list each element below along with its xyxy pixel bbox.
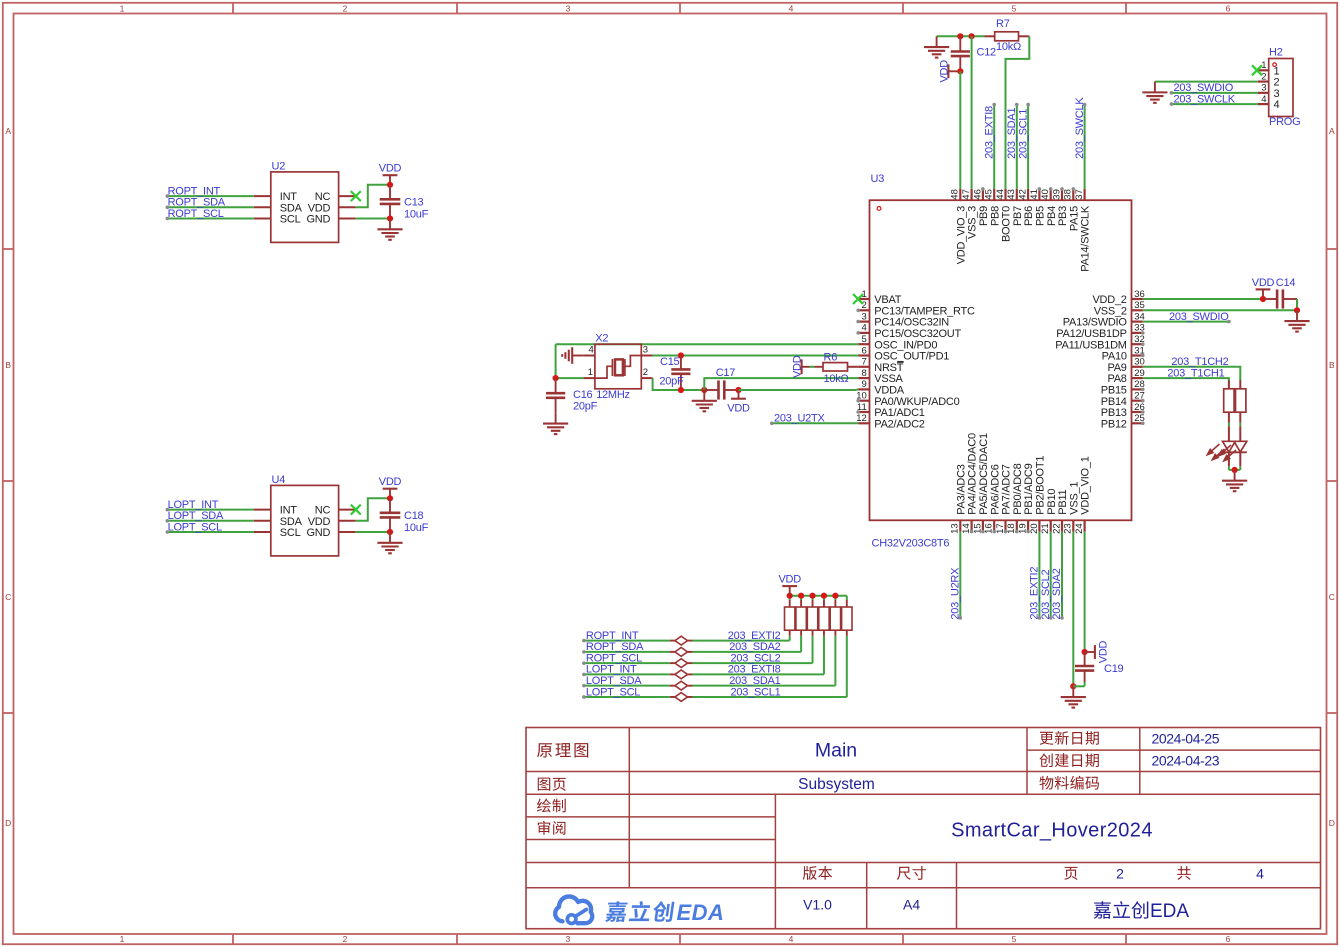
wire X2 pin2 to ground rail xyxy=(653,378,705,390)
svg-text:SmartCar_Hover2024: SmartCar_Hover2024 xyxy=(951,819,1153,841)
svg-text:PB12: PB12 xyxy=(1101,418,1127,430)
svg-text:PA7/ADC7: PA7/ADC7 xyxy=(1001,464,1013,515)
svg-text:NC: NC xyxy=(315,505,331,517)
U3 pin 4 PC15/OSC32OUT xyxy=(858,332,869,334)
svg-text:PB5: PB5 xyxy=(1035,206,1047,226)
capacitor C15 20pF xyxy=(680,356,682,370)
svg-text:203_EXTI8: 203_EXTI8 xyxy=(983,106,995,159)
svg-text:LOPT_SCL: LOPT_SCL xyxy=(586,686,640,698)
U3 pin 12 PA2/ADC2 xyxy=(858,422,869,424)
U3 pin 2 PC13/TAMPER_RTC xyxy=(858,309,869,311)
svg-text:OSC_OUT/PD1: OSC_OUT/PD1 xyxy=(874,351,949,363)
LED light arrows (right) xyxy=(1219,445,1236,461)
pull-up resistor 3 of network xyxy=(812,630,814,636)
junction xyxy=(957,33,963,39)
X2 pin 4 (case) xyxy=(584,355,595,357)
capacitor C18 10uF xyxy=(389,498,391,513)
svg-text:C: C xyxy=(5,592,11,602)
svg-text:203_T1CH2: 203_T1CH2 xyxy=(1171,356,1228,368)
junction xyxy=(701,387,707,393)
svg-text:EDA: EDA xyxy=(1150,901,1189,922)
svg-text:VBAT: VBAT xyxy=(874,294,901,306)
MCU U3 CH32V203C8T6 xyxy=(870,200,1132,520)
wire 203_SWCLK (U3 pin37) xyxy=(1084,105,1086,189)
svg-text:PA11/USB1DM: PA11/USB1DM xyxy=(1055,339,1127,351)
svg-text:R7: R7 xyxy=(996,18,1010,30)
svg-text:U3: U3 xyxy=(871,173,885,185)
junction xyxy=(798,593,804,599)
svg-text:C17: C17 xyxy=(716,367,736,379)
wire 203_EXTI2 (U3 pin20) xyxy=(1038,532,1040,618)
power flag VDD xyxy=(1262,290,1264,300)
NRST active-low overline xyxy=(897,361,904,363)
svg-text:VSS_2: VSS_2 xyxy=(1094,305,1127,317)
power flag VDD at C19 xyxy=(1085,651,1095,653)
ground xyxy=(1234,470,1236,481)
junction xyxy=(957,68,963,74)
U3 pin 25 PB12 xyxy=(1132,422,1143,424)
svg-text:2024-04-25: 2024-04-25 xyxy=(1152,730,1220,746)
capacitor C13 10uF xyxy=(389,185,391,200)
power flag VDD xyxy=(789,586,791,596)
junction xyxy=(678,352,684,358)
IC U2 xyxy=(271,172,339,243)
svg-text:4: 4 xyxy=(1274,99,1280,111)
U3 pin 27 PB14 xyxy=(1132,400,1143,402)
IC U4 xyxy=(271,485,339,556)
wire 203_SDA2 (U3 pin22) xyxy=(1061,532,1063,618)
svg-text:10uF: 10uF xyxy=(404,522,429,534)
junction xyxy=(678,387,684,393)
svg-text:ROPT_SDA: ROPT_SDA xyxy=(168,197,226,209)
svg-text:EDA: EDA xyxy=(677,900,725,925)
ground xyxy=(389,532,391,543)
wire 203_U2RX (U3 pin13) xyxy=(959,532,961,618)
junction xyxy=(1294,307,1300,313)
wire LOPT_SCL to 203_SCL1 xyxy=(584,696,670,698)
svg-text:PROG: PROG xyxy=(1269,116,1300,128)
power flag VDD at R6 xyxy=(801,359,803,374)
svg-text:2: 2 xyxy=(643,367,648,378)
U3 pin 13 PA3/ADC3 xyxy=(959,520,961,531)
svg-text:INT: INT xyxy=(280,191,298,203)
net tie diamond xyxy=(670,662,675,664)
svg-text:C12: C12 xyxy=(977,46,997,58)
wire resistor to LED (left) xyxy=(1228,423,1230,426)
ground xyxy=(1154,82,1156,93)
wire LOPT_INT xyxy=(167,509,254,511)
svg-text:203_SWDIO: 203_SWDIO xyxy=(1169,311,1229,323)
svg-text:42: 42 xyxy=(1018,189,1029,200)
svg-text:41: 41 xyxy=(1029,189,1040,200)
svg-text:PA9: PA9 xyxy=(1107,362,1126,374)
U3 pin 22 PB11 xyxy=(1061,520,1063,531)
svg-text:39: 39 xyxy=(1051,189,1062,200)
junction xyxy=(1070,683,1076,689)
capacitor C16 20pF xyxy=(555,378,557,393)
H2 pin 2 xyxy=(1258,80,1269,82)
svg-text:C13: C13 xyxy=(404,197,424,209)
svg-text:203_T1CH1: 203_T1CH1 xyxy=(1167,367,1224,379)
wire ROPT_SDA xyxy=(167,206,254,208)
capacitor C14 xyxy=(1263,298,1277,300)
svg-text:BOOT0: BOOT0 xyxy=(1001,206,1013,242)
svg-text:GND: GND xyxy=(306,214,330,226)
svg-text:PA6/ADC6: PA6/ADC6 xyxy=(989,464,1001,515)
svg-text:203_SCL1: 203_SCL1 xyxy=(731,686,781,698)
svg-text:X2: X2 xyxy=(595,333,608,345)
U3 pin 9 VDDA xyxy=(858,388,869,390)
svg-text:PB15: PB15 xyxy=(1101,385,1127,397)
svg-text:44: 44 xyxy=(995,189,1006,200)
no-connect X on H2 pin1 xyxy=(1252,65,1262,75)
svg-text:A: A xyxy=(1329,126,1335,136)
svg-text:C15: C15 xyxy=(660,356,680,368)
svg-text:PB6: PB6 xyxy=(1023,206,1035,226)
svg-text:ROPT_INT: ROPT_INT xyxy=(168,185,221,197)
svg-text:GND: GND xyxy=(306,527,330,539)
U3 pin 36 VDD_2 xyxy=(1132,298,1143,300)
junction xyxy=(553,375,559,381)
chassis ground at X2 pin 4 xyxy=(572,355,583,357)
U3 pin 17 PA7/ADC7 xyxy=(1004,520,1006,531)
junction xyxy=(969,33,975,39)
wire 203_SDA1 (U3 pin43) xyxy=(1016,105,1018,189)
wire 203_EXTI8 (U3 pin45) xyxy=(993,105,995,189)
U3 pin 46 PB9 xyxy=(982,189,984,200)
svg-text:PC14/OSC32IN: PC14/OSC32IN xyxy=(874,317,949,329)
H2 pin 3 xyxy=(1258,92,1269,94)
svg-text:U2: U2 xyxy=(272,160,286,172)
svg-text:PA1/ADC1: PA1/ADC1 xyxy=(874,407,925,419)
net tie diamond xyxy=(670,685,675,687)
wire 203_SCL1 (U3 pin42) xyxy=(1027,105,1029,189)
svg-text:203_SDA1: 203_SDA1 xyxy=(729,675,780,687)
junction xyxy=(1232,467,1238,473)
svg-text:Subsystem: Subsystem xyxy=(798,776,875,793)
wire top GND rail xyxy=(937,35,985,37)
svg-text:VDD: VDD xyxy=(1097,640,1109,663)
wire LOPT_INT to 203_EXTI8 xyxy=(584,673,670,675)
svg-text:43: 43 xyxy=(1006,189,1017,200)
svg-text:PA14/SWCLK: PA14/SWCLK xyxy=(1080,205,1092,272)
svg-text:5: 5 xyxy=(1012,934,1017,944)
svg-text:B: B xyxy=(1329,360,1335,370)
wire ROPT_INT xyxy=(167,195,254,197)
wire VDD rail of resistor network xyxy=(790,595,847,597)
svg-text:PB10: PB10 xyxy=(1046,489,1058,515)
U3 pin 37 PA14/SWCLK xyxy=(1083,189,1085,200)
svg-text:D: D xyxy=(5,818,11,828)
U3 pin 40 PB4 xyxy=(1050,189,1052,200)
svg-text:46: 46 xyxy=(972,189,983,200)
svg-text:PA3/ADC3: PA3/ADC3 xyxy=(955,464,967,515)
wire U4.GND to GND xyxy=(356,531,390,533)
svg-text:23: 23 xyxy=(1063,523,1074,534)
U3 pin 18 PB0/ADC8 xyxy=(1016,520,1018,531)
svg-text:ROPT_SCL: ROPT_SCL xyxy=(586,652,642,664)
U3 pin 41 PB5 xyxy=(1038,189,1040,200)
svg-text:SCL: SCL xyxy=(280,527,301,539)
net tie diamond xyxy=(670,696,675,698)
svg-text:38: 38 xyxy=(1063,189,1074,200)
wire VSS_2 (U3 pin35) to ground xyxy=(1296,299,1298,310)
svg-text:37: 37 xyxy=(1074,189,1085,200)
wire VDD_VIO_1 (U3 pin24) xyxy=(1084,532,1086,652)
svg-text:PB14: PB14 xyxy=(1101,396,1127,408)
svg-text:ROPT_SCL: ROPT_SCL xyxy=(168,208,224,220)
wire LOPT_SDA to 203_SDA1 xyxy=(584,685,670,687)
svg-text:ROPT_INT: ROPT_INT xyxy=(586,630,639,642)
svg-text:VDD: VDD xyxy=(939,60,951,83)
no-connect X on U2.NC xyxy=(351,191,361,201)
svg-text:PA10: PA10 xyxy=(1102,351,1127,363)
svg-text:VDD: VDD xyxy=(308,516,331,528)
svg-text:4: 4 xyxy=(1261,94,1266,105)
svg-text:PB9: PB9 xyxy=(978,206,990,226)
svg-text:10kΩ: 10kΩ xyxy=(996,41,1021,53)
wire VDD_VIO_3 (U3 pin48) xyxy=(959,71,961,189)
U3 pin 45 PB8 xyxy=(993,189,995,200)
U3 pin 44 BOOT0 xyxy=(1004,189,1006,200)
svg-text:PC15/OSC32OUT: PC15/OSC32OUT xyxy=(874,328,961,340)
wire OSC_OUT net (X2 pin3 to U3 pin6) xyxy=(653,355,859,357)
svg-text:VDD_VIO_1: VDD_VIO_1 xyxy=(1080,456,1092,514)
svg-text:2: 2 xyxy=(1116,865,1124,881)
U3 pin 7 NRST xyxy=(858,366,869,368)
U3 pin 38 PA15 xyxy=(1072,189,1074,200)
svg-text:OSC_IN/PD0: OSC_IN/PD0 xyxy=(874,339,937,351)
U3 pin 35 VSS_2 xyxy=(1132,309,1143,311)
svg-text:PB4: PB4 xyxy=(1046,206,1058,226)
svg-text:A: A xyxy=(5,126,11,136)
U3 pin 39 PB3 xyxy=(1061,189,1063,200)
U3 pin 6 OSC_OUT/PD1 xyxy=(858,354,869,356)
wire U4.VDD to VDD xyxy=(356,498,390,521)
svg-text:D: D xyxy=(1329,818,1335,828)
svg-text:5: 5 xyxy=(1012,3,1017,13)
junction xyxy=(387,529,393,535)
svg-text:PA4/ADC4/DAC0: PA4/ADC4/DAC0 xyxy=(967,433,979,515)
wire OSC_IN net (X2 pin1 / C16 to U3 pin5) xyxy=(556,343,859,345)
svg-text:203_SWDIO: 203_SWDIO xyxy=(1174,82,1234,94)
wire LOPT_SCL xyxy=(167,531,254,533)
junction xyxy=(387,495,393,501)
ground xyxy=(703,390,705,401)
junction xyxy=(1082,649,1088,655)
wire ROPT_SCL to 203_SCL2 xyxy=(584,662,670,664)
net tie diamond xyxy=(670,640,675,642)
wire 203_T1CH2 (U3 pin30) xyxy=(1143,367,1241,381)
svg-text:PB8: PB8 xyxy=(989,206,1001,226)
svg-text:ROPT_SDA: ROPT_SDA xyxy=(586,641,644,653)
U3 pin 3 PC14/OSC32IN xyxy=(858,321,869,323)
svg-text:20: 20 xyxy=(1029,523,1040,534)
wire 203_T1CH1 (U3 pin29) xyxy=(1143,378,1229,381)
svg-text:20pF: 20pF xyxy=(659,376,684,388)
wire LED cathodes to ground xyxy=(1228,452,1230,466)
svg-text:2024-04-23: 2024-04-23 xyxy=(1152,753,1220,769)
pull-up resistor 2 of network xyxy=(800,630,802,636)
svg-text:LOPT_SCL: LOPT_SCL xyxy=(168,521,222,533)
U3 pin 19 PB1/ADC9 xyxy=(1027,520,1029,531)
svg-text:C: C xyxy=(1329,592,1335,602)
svg-text:PB3: PB3 xyxy=(1057,206,1069,226)
net tie diamond xyxy=(670,651,675,653)
svg-text:3: 3 xyxy=(1261,83,1266,94)
junction xyxy=(1260,296,1266,302)
svg-text:203_EXTI2: 203_EXTI2 xyxy=(728,630,781,642)
svg-text:LOPT_INT: LOPT_INT xyxy=(586,664,637,676)
svg-text:PA2/ADC2: PA2/ADC2 xyxy=(874,418,925,430)
svg-text:VDD: VDD xyxy=(727,402,750,414)
wire ROPT_SDA to 203_SDA2 xyxy=(584,651,670,653)
ground xyxy=(389,219,391,230)
capacitor C19 xyxy=(1084,652,1086,666)
svg-text:PA5/ADC5/DAC1: PA5/ADC5/DAC1 xyxy=(978,433,990,515)
svg-text:203_SDA2: 203_SDA2 xyxy=(729,641,780,653)
ground xyxy=(555,413,557,424)
svg-text:10kΩ: 10kΩ xyxy=(824,373,849,385)
svg-text:VDD: VDD xyxy=(791,355,803,378)
svg-text:Main: Main xyxy=(815,740,857,762)
svg-text:1: 1 xyxy=(120,3,125,13)
svg-text:PA13/SWDIO: PA13/SWDIO xyxy=(1063,317,1128,329)
H2 pin 1 xyxy=(1258,69,1269,71)
svg-text:203_SWCLK: 203_SWCLK xyxy=(1074,97,1086,159)
svg-text:13: 13 xyxy=(950,523,961,534)
U3 pin 8 VSSA xyxy=(858,377,869,379)
ground xyxy=(936,36,938,47)
svg-text:VDD_VIO_3: VDD_VIO_3 xyxy=(955,206,967,264)
U3 pin 29 PA8 xyxy=(1132,377,1143,379)
svg-text:203_SDA2: 203_SDA2 xyxy=(1051,568,1063,619)
junction xyxy=(387,215,393,221)
U3 pin 28 PB15 xyxy=(1132,388,1143,390)
wire 203_SWDIO (U3 pin34) xyxy=(1143,321,1229,323)
power flag VDD xyxy=(389,489,391,499)
pull-up resistor 6 of network xyxy=(846,630,848,636)
svg-text:PB2/BOOT1: PB2/BOOT1 xyxy=(1035,456,1047,515)
svg-text:45: 45 xyxy=(984,189,995,200)
svg-text:48: 48 xyxy=(950,189,961,200)
svg-text:VSS_3: VSS_3 xyxy=(967,206,979,239)
wire ROPT_SCL xyxy=(167,218,254,220)
junction xyxy=(735,387,741,393)
no-connect X on U4.NC xyxy=(351,505,361,515)
power flag VDD xyxy=(738,390,740,399)
wire BOOT0 (R7 to U3 pin44) xyxy=(1006,36,1030,189)
svg-text:PA15: PA15 xyxy=(1068,206,1080,231)
wire U2.GND to GND xyxy=(356,218,390,220)
svg-text:3: 3 xyxy=(566,934,571,944)
svg-text:4: 4 xyxy=(589,345,594,356)
capacitor C12 xyxy=(959,36,961,51)
svg-text:24: 24 xyxy=(1074,523,1085,534)
svg-text:LOPT_SDA: LOPT_SDA xyxy=(586,675,642,687)
svg-text:R6: R6 xyxy=(824,351,838,363)
svg-text:47: 47 xyxy=(961,189,972,200)
svg-text:U4: U4 xyxy=(272,474,286,486)
svg-text:3: 3 xyxy=(566,3,571,13)
svg-text:PB11: PB11 xyxy=(1057,489,1069,514)
wire U2.VDD to VDD xyxy=(356,185,390,208)
U3 pin 47 VSS_3 xyxy=(970,189,972,200)
svg-text:5: 5 xyxy=(862,334,867,345)
junction xyxy=(809,593,815,599)
svg-text:40: 40 xyxy=(1040,189,1051,200)
junction xyxy=(821,593,827,599)
svg-text:C19: C19 xyxy=(1104,663,1124,675)
svg-text:3: 3 xyxy=(643,345,648,356)
svg-text:VDDA: VDDA xyxy=(874,385,904,397)
U3 pin 16 PA6/ADC6 xyxy=(993,520,995,531)
svg-text:VDD: VDD xyxy=(1252,277,1275,289)
svg-text:1: 1 xyxy=(120,934,125,944)
H2 pin 4 xyxy=(1258,103,1269,105)
LED light arrows (left) xyxy=(1207,444,1224,460)
svg-text:PC13/TAMPER_RTC: PC13/TAMPER_RTC xyxy=(874,305,975,317)
svg-text:6: 6 xyxy=(862,345,867,356)
svg-text:LOPT_SDA: LOPT_SDA xyxy=(168,510,224,522)
X2 pin 1 xyxy=(584,377,595,379)
svg-text:203_EXTI8: 203_EXTI8 xyxy=(728,664,781,676)
svg-text:CH32V203C8T6: CH32V203C8T6 xyxy=(872,537,950,549)
svg-text:VDD: VDD xyxy=(379,476,402,488)
svg-text:3: 3 xyxy=(862,311,867,322)
svg-text:PB7: PB7 xyxy=(1012,206,1024,226)
svg-text:20pF: 20pF xyxy=(573,400,598,412)
X2 pin 3 xyxy=(641,355,652,357)
svg-text:4: 4 xyxy=(1256,865,1264,881)
svg-text:LOPT_INT: LOPT_INT xyxy=(168,499,219,511)
svg-text:4: 4 xyxy=(789,3,794,13)
svg-text:PB0/ADC8: PB0/ADC8 xyxy=(1012,463,1024,514)
junction xyxy=(787,593,793,599)
pull-up resistor 1 of network xyxy=(789,630,791,636)
U3 pin 5 OSC_IN/PD0 xyxy=(858,343,869,345)
svg-text:203_EXTI2: 203_EXTI2 xyxy=(1029,567,1041,620)
svg-text:1: 1 xyxy=(588,367,593,378)
svg-text:C16: C16 xyxy=(573,389,593,401)
svg-text:203_SWCLK: 203_SWCLK xyxy=(1174,93,1236,105)
resistor (right of LED pair) xyxy=(1239,380,1241,389)
X2 pin 2 xyxy=(641,377,652,379)
svg-text:C18: C18 xyxy=(404,510,424,522)
U3 pin 23 VSS_1 xyxy=(1072,520,1074,531)
svg-text:VDD: VDD xyxy=(379,163,402,175)
wire VSSA (U3 pin8) xyxy=(704,378,858,390)
svg-text:VSSA: VSSA xyxy=(874,373,903,385)
svg-text:PB13: PB13 xyxy=(1101,407,1127,419)
wire LOPT_SDA xyxy=(167,520,254,522)
svg-text:PA0/WKUP/ADC0: PA0/WKUP/ADC0 xyxy=(874,396,959,408)
svg-text:2: 2 xyxy=(1261,71,1266,82)
svg-text:2: 2 xyxy=(1274,77,1280,89)
U3 pin 43 PB7 xyxy=(1016,189,1018,200)
svg-text:203_SCL2: 203_SCL2 xyxy=(1040,569,1052,619)
resistor R7 10k (BOOT0 pulldown) xyxy=(984,35,994,37)
svg-text:C14: C14 xyxy=(1276,277,1296,289)
U3 pin 21 PB10 xyxy=(1050,520,1052,531)
ground xyxy=(1296,310,1298,321)
U3 pin 11 PA1/ADC1 xyxy=(858,411,869,413)
ground xyxy=(1072,686,1074,697)
svg-text:NC: NC xyxy=(315,191,331,203)
svg-text:2: 2 xyxy=(343,3,348,13)
power flag VDD xyxy=(389,175,391,185)
U3 pin 15 PA5/ADC5/DAC1 xyxy=(982,520,984,531)
